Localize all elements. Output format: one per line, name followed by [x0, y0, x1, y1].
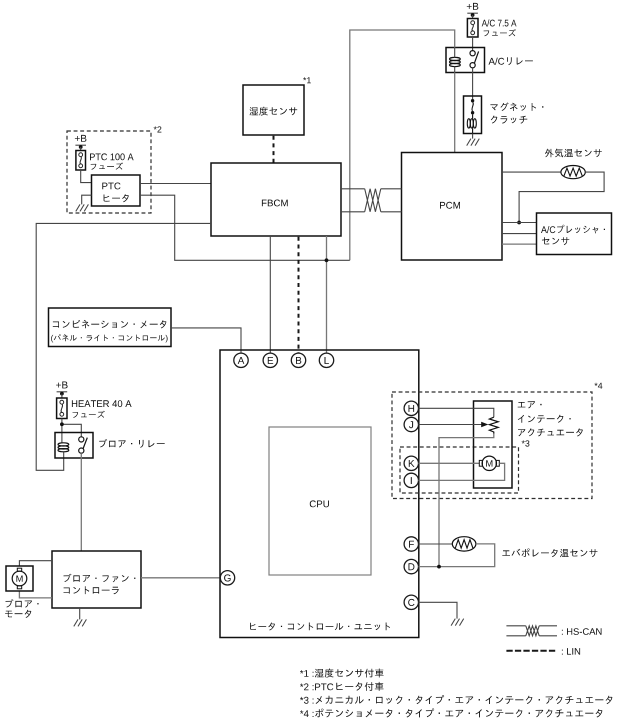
- wire PTC fuse to heater: [81, 170, 92, 183]
- label magnet clutch: [490, 103, 543, 112]
- wire actuator motor to pin I: [419, 463, 505, 480]
- label panel light control: [51, 334, 168, 342]
- wire FBCM to blower relay coil (left bus): [36, 223, 211, 470]
- wire A/C fuse to relay: [472, 37, 474, 51]
- dashed box *2 (PTC option): [67, 131, 151, 213]
- pin I: [404, 473, 418, 487]
- power +B (HEATER): [56, 382, 68, 389]
- fuse HEATER 40A: [57, 398, 67, 419]
- wire pin K to actuator motor: [419, 462, 480, 464]
- wire HEATER fuse to blower relay: [62, 419, 81, 444]
- wire PCM to ambient sensor: [502, 171, 561, 173]
- label CPU: [310, 500, 329, 507]
- dashed box *4 (potentiometer type): [392, 392, 592, 499]
- power +B (PTC): [75, 135, 87, 142]
- footnote *4: [300, 710, 314, 717]
- wire relay coil bottom to PCM: [454, 73, 456, 153]
- power +B (A/C): [467, 3, 479, 10]
- label A/C 7.5 A: [482, 19, 517, 26]
- wire evaporator sensor to pin D: [419, 544, 495, 567]
- node junction L-bus: [325, 258, 329, 262]
- A/C pressure sensor box: [537, 213, 612, 255]
- footnote *3: [300, 697, 314, 704]
- wire clutch to ground: [472, 134, 474, 139]
- wire pin F to evaporator sensor: [419, 543, 453, 545]
- label air intake actuator: [518, 401, 542, 408]
- ground (pin C): [451, 619, 464, 626]
- pin F: [404, 537, 418, 551]
- CPU box: [269, 427, 371, 575]
- label *2: [154, 126, 162, 132]
- actuator motor M: [482, 456, 496, 470]
- wire +B to PTC fuse: [80, 147, 82, 151]
- PTC heater box: [92, 175, 141, 206]
- dashed box *3 (mechanical lock type): [400, 447, 519, 493]
- label blower fan controller: [64, 574, 136, 583]
- wire FBCM to pin L: [326, 236, 328, 353]
- label fuse (A/C): [484, 29, 516, 36]
- wire potentiometer to node D: [439, 434, 494, 567]
- label A/C pressure sensor: [541, 225, 605, 234]
- magnet clutch box: [464, 96, 482, 134]
- wire controller to ground: [79, 608, 81, 619]
- wire pin J wiper arrow: [419, 424, 483, 426]
- wire controller to pin G: [141, 577, 220, 579]
- module FBCM box: [211, 163, 341, 236]
- label *4: [594, 383, 602, 389]
- wire controller to motor (top): [19, 561, 52, 566]
- wire relay switch to magnet clutch: [472, 68, 474, 99]
- magnet clutch coil: [467, 119, 470, 128]
- label FBCM: [262, 200, 288, 207]
- HS-CAN twisted pair FBCM-PCM: [341, 189, 402, 212]
- footnote *1: [300, 670, 314, 677]
- air intake actuator box: [474, 401, 513, 488]
- wire meter to pin A: [171, 328, 241, 353]
- potentiometer element: [489, 417, 498, 434]
- heater control unit box: [220, 350, 419, 638]
- wire +B to HEATER fuse: [61, 394, 63, 398]
- ground (blower fan controller): [74, 619, 87, 626]
- pin E: [263, 353, 277, 367]
- node junction fuse/relay: [60, 422, 64, 426]
- relay A/C coil: [450, 57, 461, 60]
- label PTC heater: [102, 183, 120, 190]
- pin H: [404, 401, 418, 415]
- label A/C relay: [489, 57, 533, 65]
- wire pin C to ground: [419, 602, 458, 618]
- pin J: [404, 417, 418, 431]
- wire FBCM to pin E: [269, 236, 271, 353]
- ground (PTC heater): [76, 204, 89, 211]
- blower motor M: [12, 571, 27, 586]
- wire LIN FBCM to pin B (dashed): [298, 237, 300, 353]
- footnote *2: [300, 683, 314, 690]
- node junction pot/evap at pin D: [437, 565, 441, 569]
- legend label HS-CAN: [562, 628, 602, 635]
- thermistor evaporator temp sensor: [452, 537, 476, 551]
- relay blower box: [55, 433, 93, 459]
- label PTC 100 A: [90, 153, 134, 160]
- pin K: [404, 456, 418, 470]
- legend HS-CAN symbol: [506, 626, 557, 636]
- node junction pressure sensor feed: [517, 221, 521, 225]
- fuse PTC 100A: [76, 151, 86, 171]
- wire PTC heater to ground: [82, 195, 92, 204]
- wire ambient sensor return loop: [519, 172, 604, 222]
- pin A: [234, 353, 248, 367]
- label PCM: [440, 202, 460, 209]
- pin B: [291, 353, 305, 367]
- combination meter box: [49, 308, 172, 347]
- pin D: [404, 559, 418, 573]
- pin C: [404, 595, 418, 609]
- ground (magnet clutch): [467, 139, 480, 146]
- label *3: [522, 440, 530, 446]
- label blower relay: [99, 439, 165, 448]
- label combination meter: [53, 320, 167, 329]
- wire PCM to pressure sensor 1: [502, 222, 537, 224]
- pin L: [319, 353, 333, 367]
- label humidity sensor: [250, 107, 298, 116]
- wire pin H to potentiometer: [419, 408, 494, 417]
- humidity sensor box: [243, 85, 304, 135]
- legend LIN symbol: [506, 650, 557, 652]
- label ambient temp sensor: [545, 149, 602, 158]
- wire LIN humidity sensor to FBCM (dashed): [273, 136, 275, 163]
- wire controller to motor (bottom): [19, 591, 52, 598]
- module PCM box: [402, 153, 503, 261]
- wire blower relay switch to controller: [80, 453, 82, 551]
- relay blower switch: [79, 437, 84, 442]
- label fuse (HEATER): [73, 411, 105, 418]
- blower fan controller box: [52, 551, 141, 608]
- legend label LIN: [562, 648, 580, 655]
- label HEATER 40 A: [72, 400, 132, 407]
- magnet clutch contact: [471, 99, 474, 102]
- thermistor ambient temp sensor: [561, 166, 585, 179]
- wire relay coil to node L (via top loop): [350, 30, 455, 260]
- label fuse (PTC): [91, 163, 123, 170]
- wire PTC heater to node L bus: [140, 195, 350, 260]
- wire +B to A/C fuse: [472, 15, 474, 19]
- relay A/C box: [446, 48, 485, 73]
- fuse A/C 7.5A: [467, 19, 478, 38]
- relay A/C switch: [470, 51, 475, 56]
- pin G: [220, 571, 234, 585]
- wire PCM to pressure sensor 3: [502, 243, 537, 245]
- blower motor box: [6, 566, 33, 591]
- label *1: [303, 77, 311, 83]
- wire PCM to pressure sensor 2: [502, 233, 537, 235]
- wire PTC heater to FBCM: [140, 183, 211, 185]
- relay blower coil: [58, 443, 69, 446]
- label heater control unit: [250, 623, 390, 631]
- label blower motor: [6, 599, 39, 607]
- label evaporator temp sensor: [502, 549, 597, 558]
